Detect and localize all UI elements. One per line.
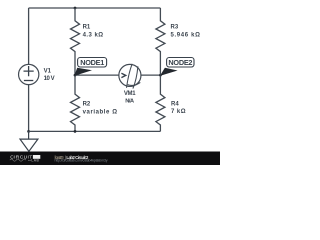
footer bar <box>0 152 220 166</box>
voltmeter VM1 <box>119 64 141 89</box>
svg-text:7 kΩ: 7 kΩ <box>171 109 186 115</box>
svg-text:R3: R3 <box>171 24 179 30</box>
svg-text:V1: V1 <box>44 68 52 74</box>
wire left branch upper <box>28 8 30 64</box>
label R3 5.946 kOhm <box>171 24 201 38</box>
label R2 variable <box>83 101 118 115</box>
svg-text:∾LAB: ∾LAB <box>28 158 39 162</box>
footer credit line 1 <box>55 155 90 160</box>
resistor R1 <box>71 8 80 75</box>
label V1 10 V <box>44 68 55 82</box>
label R4 7 kOhm <box>171 101 186 115</box>
resistor R4 <box>156 75 165 131</box>
resistor R3 <box>156 8 165 75</box>
svg-text:4.3 kΩ: 4.3 kΩ <box>83 32 104 38</box>
node flag NODE1 <box>74 58 106 76</box>
junction ground node <box>27 130 30 133</box>
label R1 4.3 kOhm <box>83 24 104 38</box>
wire top bus <box>29 7 161 9</box>
svg-text:R1: R1 <box>83 24 91 30</box>
ground <box>20 131 38 151</box>
svg-text:VM1: VM1 <box>124 91 136 97</box>
resistor R2 <box>71 75 80 131</box>
logo CircuitLab wordmark <box>10 155 41 163</box>
junction node NODE1 <box>74 74 77 77</box>
wire middle left <box>75 74 119 76</box>
svg-text:5.946 kΩ: 5.946 kΩ <box>171 32 201 38</box>
label VM1 N/A <box>124 91 136 105</box>
svg-text:http://circuitlab.com/c/8ab4kp: http://circuitlab.com/c/8ab4kp8abm3y <box>55 159 108 163</box>
wire middle right <box>141 74 160 76</box>
junction R2 bottom <box>74 130 77 133</box>
wire left branch lower <box>28 85 30 132</box>
svg-text:variable Ω: variable Ω <box>83 109 118 115</box>
svg-text:R4: R4 <box>171 101 179 107</box>
wire bottom bus <box>29 130 161 132</box>
svg-text:NODE1: NODE1 <box>80 58 104 67</box>
svg-text:NODE2: NODE2 <box>168 58 192 67</box>
node flag NODE2 <box>160 58 194 76</box>
junction node NODE2 <box>159 74 162 77</box>
svg-text:10 V: 10 V <box>44 76 55 82</box>
junction R1 top <box>74 7 77 10</box>
voltage source V1 <box>19 64 39 84</box>
svg-text:N/A: N/A <box>125 99 135 105</box>
svg-text:R2: R2 <box>83 101 91 107</box>
